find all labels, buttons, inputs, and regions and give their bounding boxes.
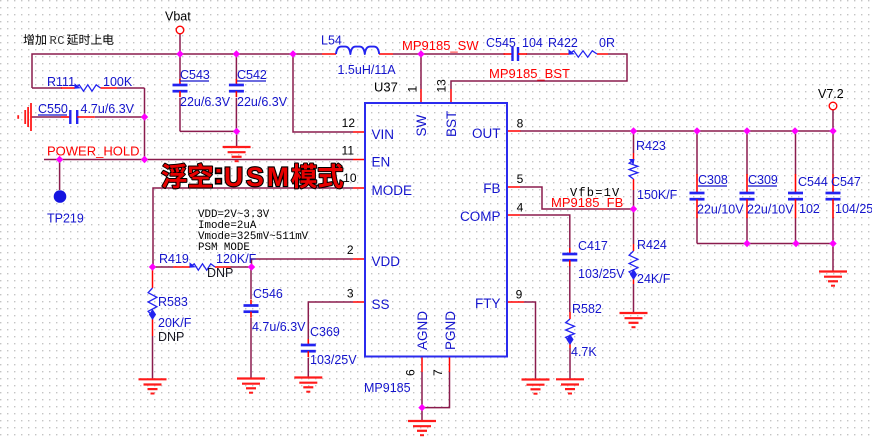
svg-text:10: 10 (343, 171, 357, 185)
svg-text:R419: R419 (159, 252, 189, 266)
svg-text:11: 11 (342, 144, 355, 158)
svg-text:MODE: MODE (372, 183, 413, 198)
svg-text:USM: USM (224, 162, 292, 192)
svg-text:POWER_HOLD: POWER_HOLD (47, 144, 139, 159)
svg-text:R422: R422 (548, 36, 578, 50)
svg-text:MP9185_SW: MP9185_SW (402, 38, 479, 53)
svg-text:MP9185_BST: MP9185_BST (489, 66, 570, 81)
svg-text:12: 12 (342, 116, 356, 130)
svg-text:Vbat: Vbat (165, 10, 191, 24)
svg-text:8: 8 (517, 117, 524, 131)
svg-text:FTY: FTY (475, 296, 501, 311)
svg-text:C308: C308 (698, 173, 728, 187)
svg-text:103/25V: 103/25V (578, 267, 625, 281)
svg-text:104: 104 (522, 36, 543, 50)
svg-text:U37: U37 (374, 80, 398, 95)
svg-text:103/25V: 103/25V (310, 353, 357, 367)
svg-text:150K/F: 150K/F (637, 188, 678, 202)
svg-text:C543: C543 (180, 68, 210, 82)
svg-text:7: 7 (431, 369, 445, 376)
svg-text:24K/F: 24K/F (637, 272, 671, 286)
svg-text:VIN: VIN (372, 127, 395, 142)
svg-text:C369: C369 (310, 325, 340, 339)
svg-text:MP9185: MP9185 (364, 381, 411, 395)
svg-text:R111: R111 (47, 75, 75, 89)
svg-text:22u/6.3V: 22u/6.3V (237, 95, 288, 109)
svg-text:C544: C544 (798, 175, 828, 189)
svg-text:SW: SW (414, 114, 429, 136)
svg-text:0R: 0R (599, 36, 615, 50)
svg-text:4.7u/6.3V: 4.7u/6.3V (252, 320, 306, 334)
svg-text:22u/10V: 22u/10V (747, 203, 794, 217)
svg-text:COMP: COMP (460, 209, 501, 224)
svg-text:PSM MODE: PSM MODE (198, 242, 250, 254)
svg-text:EN: EN (372, 155, 391, 170)
svg-text:FB: FB (483, 181, 500, 196)
svg-text:3: 3 (347, 287, 354, 301)
svg-text:R582: R582 (572, 302, 602, 316)
svg-text:R424: R424 (637, 238, 667, 252)
svg-text:13: 13 (435, 79, 449, 93)
svg-text:AGND: AGND (415, 311, 430, 350)
svg-text:DNP: DNP (207, 266, 233, 280)
svg-text:C309: C309 (748, 173, 778, 187)
svg-text:1.5uH/11A: 1.5uH/11A (338, 63, 397, 77)
svg-text:VDD: VDD (372, 254, 401, 269)
svg-text:22u/10V: 22u/10V (697, 203, 744, 217)
svg-text:C417: C417 (578, 239, 608, 253)
svg-text:4.7u/6.3V: 4.7u/6.3V (81, 102, 135, 116)
svg-text:DNP: DNP (158, 330, 184, 344)
svg-text:SS: SS (372, 297, 390, 312)
svg-text:TP219: TP219 (47, 212, 84, 226)
svg-text:V7.2: V7.2 (818, 87, 844, 101)
svg-text:L54: L54 (321, 34, 342, 48)
svg-text:PGND: PGND (443, 311, 458, 350)
svg-text:2: 2 (347, 243, 354, 257)
svg-text:5: 5 (517, 172, 524, 186)
svg-text:4.7K: 4.7K (571, 345, 597, 359)
svg-text:C545: C545 (486, 36, 516, 50)
svg-text:100K: 100K (103, 75, 133, 89)
svg-text:C542: C542 (237, 68, 267, 82)
svg-text:Vfb=1V: Vfb=1V (570, 186, 620, 200)
svg-text:C547: C547 (831, 175, 861, 189)
svg-text:104/25V: 104/25V (835, 202, 872, 216)
svg-text:C546: C546 (253, 287, 283, 301)
svg-text:OUT: OUT (472, 126, 501, 141)
svg-text:120K/F: 120K/F (216, 252, 257, 266)
svg-text:4: 4 (517, 201, 524, 215)
svg-text:9: 9 (516, 288, 523, 302)
svg-text:102: 102 (799, 202, 820, 216)
svg-text:R583: R583 (158, 295, 188, 309)
svg-text:1: 1 (406, 86, 420, 93)
svg-text:22u/6.3V: 22u/6.3V (180, 95, 231, 109)
svg-text:6: 6 (404, 369, 418, 376)
svg-text:20K/F: 20K/F (158, 316, 192, 330)
svg-text:BST: BST (444, 111, 459, 137)
svg-text:RC: RC (50, 34, 65, 48)
svg-text:C550: C550 (38, 102, 68, 116)
svg-text:R423: R423 (636, 139, 666, 153)
